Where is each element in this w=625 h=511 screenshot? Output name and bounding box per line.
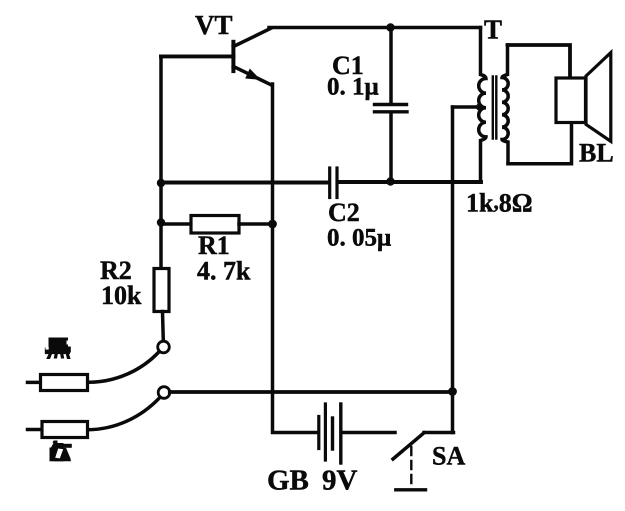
capacitor C2: [330, 168, 337, 198]
svg-text:9V: 9V: [322, 465, 358, 497]
transformer T primary lead + winding: [479, 28, 486, 181]
transformer tap wire: [453, 105, 482, 109]
svg-text:SA: SA: [432, 442, 465, 471]
svg-text:10k: 10k: [101, 281, 142, 310]
terminal circle lower (red wire): [158, 387, 170, 399]
wire tap vertical: [451, 107, 455, 433]
wire probe-black curve: [88, 352, 160, 383]
svg-text:C2: C2: [328, 198, 360, 227]
speaker BL: [556, 53, 611, 142]
svg-text:GB: GB: [267, 465, 309, 497]
svg-text:T: T: [484, 15, 502, 45]
probe red body: [28, 422, 88, 438]
wire red horizontal: [170, 390, 453, 394]
wire C2 right: [339, 180, 482, 184]
wire base: [161, 54, 233, 58]
node tap junction: [476, 103, 483, 110]
wire emitter vertical down to battery: [273, 84, 318, 433]
svg-text:0. 05μ: 0. 05μ: [327, 225, 391, 252]
svg-text:4. 7k: 4. 7k: [197, 257, 251, 286]
wire C2 left (base to C2): [161, 181, 328, 185]
node R1 left junction: [157, 218, 165, 226]
resistor R1: [161, 216, 273, 234]
node C1 top junction: [386, 23, 394, 31]
node base-C2 junction: [157, 179, 165, 187]
wire secondary bottom to speaker: [508, 123, 572, 164]
wire probe-red curve: [88, 397, 161, 429]
transistor VT: [233, 29, 271, 86]
node switch junction: [448, 387, 457, 396]
capacitor C1: [375, 28, 408, 183]
wire left branch vertical: [159, 56, 163, 268]
transformer core: [493, 77, 497, 139]
svg-text:1k,8Ω: 1k,8Ω: [466, 189, 533, 218]
label red (Chinese): [50, 441, 72, 462]
switch SA: [393, 433, 454, 490]
wire collector top: [269, 26, 481, 30]
label black (Chinese): [45, 338, 71, 360]
svg-text:BL: BL: [579, 139, 614, 168]
node C1 bottom junction: [386, 177, 394, 185]
battery GB: [319, 404, 395, 463]
resistor R2: [154, 269, 169, 342]
svg-text:VT: VT: [195, 10, 233, 40]
svg-text:0. 1μ: 0. 1μ: [327, 74, 379, 101]
probe black body: [28, 375, 88, 391]
wire secondary top to speaker: [508, 45, 571, 78]
node R1 right junction: [268, 220, 277, 229]
transformer secondary winding: [502, 45, 508, 164]
terminal circle upper (to R2): [158, 341, 170, 353]
